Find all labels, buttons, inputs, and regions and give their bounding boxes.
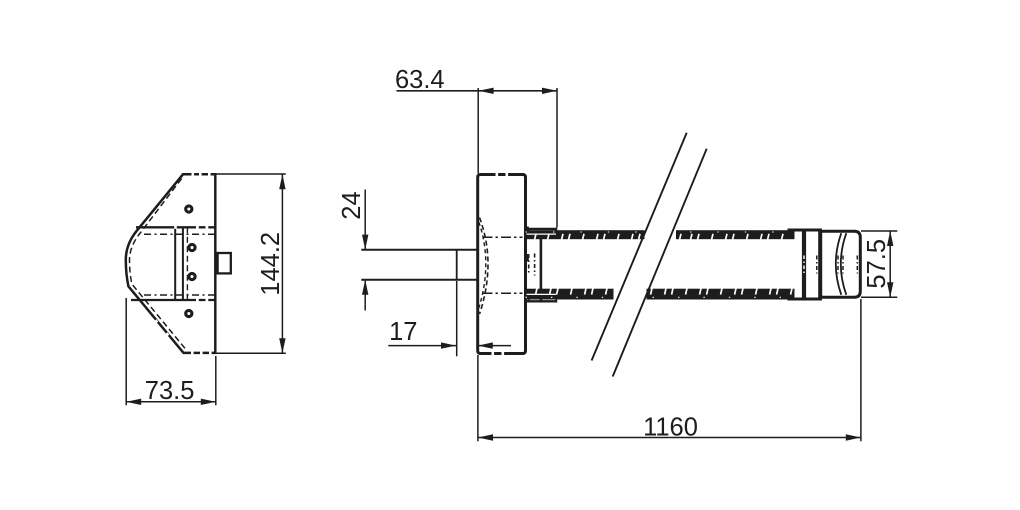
svg-text:73.5: 73.5 [145,377,195,405]
dimension 144.2 extension top [216,173,286,175]
dimension 73.5 line [126,401,216,403]
left flange white splits [527,233,557,235]
left bracket cover bottom end tick [555,297,557,302]
head cap edge gaps [496,173,499,177]
dimension 144.2 extension bottom [216,352,286,354]
head cap hidden profile curve 2 [479,222,486,308]
section vertical hidden line [186,227,188,300]
dimension 63.4 arrow left [479,88,494,94]
hole lower-middle [189,273,195,279]
dimension 17 arrow left [478,342,493,348]
latch rod top edge [361,249,477,251]
dimension 57.5 arrow down [887,282,893,297]
right bracket dark column [802,231,806,298]
bar section bottom hidden line [144,294,215,296]
right bracket column white marks [803,256,805,274]
left bracket inner vertical (top and bottom segments) [528,231,530,239]
dimension 1160 line [478,437,861,439]
hole upper-middle [189,244,195,250]
dimension 57.5 extension top [861,230,897,232]
head cap center line bottom [483,292,523,294]
end view inner hidden contour (dashed) [130,179,186,349]
left bracket cover top [526,228,558,230]
tail cap inner curve 2 [841,233,847,295]
latch rod inner line [456,250,458,280]
head cap center line top [483,236,523,238]
latch rod bottom edge [361,279,477,281]
left bracket center mark [534,254,536,276]
bar bottom band white slashes [536,288,792,294]
section vertical line 1 [174,227,176,300]
dimension 57.5 line [889,231,891,297]
left bracket inner center mark [528,254,530,274]
dimension 1160 arrow right [846,434,861,440]
right bracket cover top [788,229,823,232]
dimension 24 line lower [364,280,366,311]
svg-text:57.5: 57.5 [863,239,891,289]
dimension 24 line upper [364,190,366,250]
bar bottom band right part [647,289,795,300]
dimension 63.4 leader+line [397,90,558,92]
tail cap inner curve 1 [836,233,842,295]
dimension 24 arrow down [362,235,368,250]
tail cap center marks [837,256,839,274]
dimension 144.2 arrow down [279,338,285,353]
left bracket cover bottom [526,300,558,302]
dimension 24 arrow up [362,280,368,295]
dimension 63.4 arrow right [542,88,557,94]
left bracket right vertical [540,231,543,301]
head cap hidden profile curve 1 [480,218,489,315]
dimension 17 arrow right [441,342,456,348]
bar top band white specks [526,231,795,233]
dimension 73.5 extension left [125,298,127,405]
dimension 1160 extension left [477,355,479,441]
dimension 73.5 arrow left [126,399,141,405]
head cap right tabs [526,227,529,234]
left bracket cover top end tick [555,228,557,233]
tail cap (right end cap) [821,231,861,297]
right bracket cover bottom [788,298,823,301]
end view outline [126,174,216,353]
right bracket center mark [816,256,818,274]
dimension 144.2 arrow up [279,174,285,189]
bar bottom band left part [526,289,614,300]
bar top band left part [526,230,645,239]
svg-text:63.4: 63.4 [395,66,445,94]
latch block [218,253,231,273]
dimension 57.5 arrow up [887,231,893,246]
svg-text:144.2: 144.2 [257,232,285,296]
edge hidden-line gaps (white ticks) [152,173,212,355]
bar bottom band white specks [526,296,795,298]
break line left [592,133,687,361]
hole top [186,206,192,212]
bar section top line [136,226,215,228]
svg-text:24: 24 [338,191,366,219]
bar section bottom line [131,299,215,301]
dimension 1160 arrow left [478,434,493,440]
right bracket vertical thick [818,231,822,298]
break line right [613,149,707,377]
dimension 63.4 extension right [556,88,558,228]
dimension 17 line right [478,345,511,347]
section vertical line 2 [182,227,184,300]
bar top band right part [676,230,795,239]
dimension 144.2 line [281,174,283,353]
dimension 63.4 extension left [477,88,479,174]
dimension 1160 extension right [860,299,862,441]
dimension 73.5 arrow right [201,399,216,405]
bar top band white slashes [535,234,783,240]
head cap (left end cap) [478,175,526,354]
hole bottom [186,310,192,316]
dimension 73.5 extension right [215,356,217,405]
dimension 17 extension [456,281,458,356]
dimension 57.5 extension bottom [861,296,897,298]
svg-text:1160: 1160 [643,413,698,441]
bar section top hidden line [144,233,215,235]
dimension 17 line left [388,345,456,347]
svg-text:17: 17 [389,318,417,346]
